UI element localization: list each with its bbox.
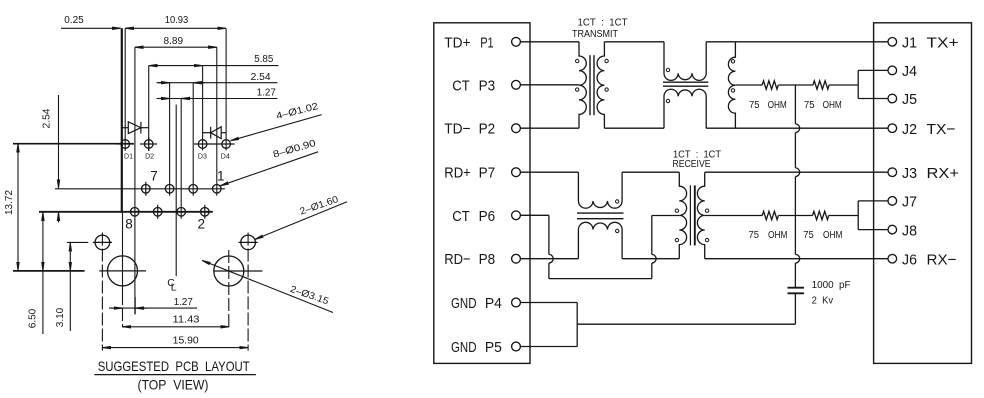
resistor R4 75 OHM xyxy=(813,211,829,219)
ground link vertical xyxy=(576,303,578,347)
svg-text:GND: GND xyxy=(451,339,477,356)
pad row8-3 xyxy=(177,208,186,217)
dimension 5.85 line xyxy=(149,65,203,67)
wire tap to R1 xyxy=(735,84,762,86)
extension line pad row 8 xyxy=(39,211,213,213)
svg-text:P5: P5 xyxy=(485,339,502,356)
svg-text:15.90: 15.90 xyxy=(173,335,200,346)
svg-text:CT: CT xyxy=(452,208,470,225)
dimension 0.25 leader line with arrow xyxy=(61,27,121,29)
svg-text:RD+: RD+ xyxy=(444,165,471,182)
wire P8 to L2 bottom xyxy=(520,258,578,260)
leader 8-dia-0.90 xyxy=(220,152,318,186)
wire hop P6 over P8 xyxy=(549,254,553,263)
dimension 1.27 bottom line xyxy=(109,307,197,309)
choke L2 bottom dot xyxy=(616,229,619,232)
title underline xyxy=(94,374,256,376)
svg-text:3.10: 3.10 xyxy=(55,307,66,327)
wire P2 to T1 primary bottom xyxy=(520,127,579,129)
transformer T2 primary winding xyxy=(679,172,686,259)
dimension 11.43 line xyxy=(123,326,230,328)
transformer T1 primary dots xyxy=(576,59,579,62)
svg-text:D2: D2 xyxy=(145,151,154,160)
pad row8-2 xyxy=(153,208,162,217)
leader 2-dia-3.15 xyxy=(202,260,333,312)
wire T1 to L1 bottom xyxy=(604,127,664,129)
small hole left xyxy=(95,235,110,250)
choke L1 top winding xyxy=(664,42,706,81)
big hole left xyxy=(108,256,138,286)
dimension 1.27 line xyxy=(157,98,278,100)
svg-text:J1: J1 xyxy=(902,35,917,52)
svg-text:J4: J4 xyxy=(902,63,917,80)
svg-text:P2: P2 xyxy=(479,121,496,138)
tx tap winding dots xyxy=(731,60,734,63)
wire L1 to J2 xyxy=(706,127,888,129)
svg-text:P3: P3 xyxy=(479,77,496,94)
svg-text:(TOP VIEW): (TOP VIEW) xyxy=(138,377,209,392)
wire hop over J3 line xyxy=(795,168,799,177)
svg-text:6.50: 6.50 xyxy=(28,308,39,328)
svg-text:75: 75 xyxy=(749,100,760,111)
big hole right xyxy=(214,256,244,286)
wire hop over J2 line xyxy=(795,124,799,133)
capacitor C1 lower lead xyxy=(794,293,796,324)
pad row7-3 xyxy=(189,185,198,194)
pad D3 xyxy=(198,140,207,149)
svg-text:75: 75 xyxy=(749,230,760,241)
svg-text:J7: J7 xyxy=(902,194,917,211)
svg-text:75: 75 xyxy=(803,230,814,241)
leader 4-dia-1.02 xyxy=(231,115,322,141)
svg-text:TD+: TD+ xyxy=(444,34,470,51)
svg-text:0.25: 0.25 xyxy=(64,15,84,26)
svg-text:P1: P1 xyxy=(480,34,494,51)
svg-text:1.27: 1.27 xyxy=(257,87,276,98)
svg-text:2.54: 2.54 xyxy=(251,72,272,83)
extension line D4 column xyxy=(225,28,227,150)
vertical R junction to capacitor xyxy=(794,85,796,124)
svg-text:8: 8 xyxy=(125,217,133,232)
svg-text:TRANSMIT: TRANSMIT xyxy=(572,29,618,40)
bracket J7 J8 xyxy=(857,201,859,230)
svg-text:1: 1 xyxy=(217,169,225,184)
svg-text:2: 2 xyxy=(197,217,205,232)
wire R3 to R4 xyxy=(778,215,812,217)
svg-text:J5: J5 xyxy=(902,91,917,108)
dimension 15.90 line xyxy=(102,347,248,349)
svg-text:P8: P8 xyxy=(479,251,496,268)
svg-text:OHM: OHM xyxy=(823,230,843,241)
svg-text:5.85: 5.85 xyxy=(254,54,273,65)
svg-text:2 Kv: 2 Kv xyxy=(812,296,834,307)
svg-text:GND: GND xyxy=(451,295,477,312)
wire R4 to J7 J8 bracket xyxy=(829,215,859,217)
svg-text:8.89: 8.89 xyxy=(164,36,184,47)
svg-text:2–Ø3.15: 2–Ø3.15 xyxy=(289,284,330,307)
dimension 8.89 line xyxy=(135,46,217,48)
transformer T1 secondary dots xyxy=(605,59,608,62)
pad row7-2 xyxy=(165,185,174,194)
wire P3 to T1 center tap xyxy=(520,84,579,86)
transformer T2 secondary winding xyxy=(697,172,704,259)
extension line diode row xyxy=(13,143,134,145)
choke L2 bottom winding xyxy=(578,222,622,258)
pin J2 terminal xyxy=(888,124,897,133)
extension line pad8-3 column xyxy=(180,99,182,219)
wire P4 to ground link xyxy=(520,302,577,304)
choke L1 top dot xyxy=(666,68,669,71)
svg-text:RX−: RX− xyxy=(927,251,957,268)
wire hop riser over bottom wire xyxy=(652,254,656,263)
svg-text:J2: J2 xyxy=(902,121,917,138)
wire P6 bottom run xyxy=(549,278,652,280)
wire T2 to J3 xyxy=(705,171,888,173)
svg-text:J6: J6 xyxy=(902,251,917,268)
choke L2 core xyxy=(577,212,624,214)
svg-text:J3: J3 xyxy=(902,165,917,182)
svg-text:CT: CT xyxy=(452,77,470,94)
wire L2 to T2 top xyxy=(622,171,679,173)
pad row7-4 pin1 xyxy=(213,185,222,194)
centerline xyxy=(175,105,177,277)
extension line D1 column xyxy=(124,28,126,151)
svg-text:7: 7 xyxy=(150,169,158,184)
svg-text:D3: D3 xyxy=(198,151,207,160)
pin J8 terminal xyxy=(888,225,897,234)
svg-text:4–Ø1.02: 4–Ø1.02 xyxy=(275,101,319,122)
pin J6 terminal xyxy=(888,254,897,263)
svg-text:D4: D4 xyxy=(221,151,230,160)
wire R2 to J4 J5 bracket xyxy=(829,84,858,86)
extension line mounting hole row xyxy=(13,270,85,272)
pin J3 terminal xyxy=(888,168,897,177)
extension line pad1 column xyxy=(216,47,218,196)
transformer T1 secondary winding xyxy=(597,42,604,128)
extension line pad8 column xyxy=(134,47,136,314)
choke L2 top dot xyxy=(616,200,619,203)
dimension 3.10 line xyxy=(69,243,71,271)
diode D3-D4 symbol xyxy=(203,132,211,134)
svg-text:J8: J8 xyxy=(902,222,917,239)
extension line D3 column xyxy=(202,66,204,151)
pad row8-1 xyxy=(130,208,139,217)
bracket J4 J5 xyxy=(857,70,859,98)
leader 2-dia-1.60 xyxy=(255,202,347,240)
svg-text:P4: P4 xyxy=(485,295,502,312)
pin P5 terminal xyxy=(512,342,521,351)
resistor R1 75 OHM xyxy=(762,81,778,89)
wire P5 to ground link xyxy=(520,346,577,348)
svg-text:L: L xyxy=(171,281,177,293)
wire T2 to J6 xyxy=(705,258,888,260)
extension line small hole row dashed xyxy=(67,241,89,243)
wire P6 riser with hop xyxy=(651,263,653,279)
tx tap winding xyxy=(728,42,735,128)
extension line pad row 7 xyxy=(55,188,225,190)
svg-text:11.43: 11.43 xyxy=(173,315,200,326)
svg-text:SUGGESTED PCB LAYOUT: SUGGESTED PCB LAYOUT xyxy=(98,359,250,374)
left drawing: connector edge datum line xyxy=(121,28,123,212)
transformer T2 secondary dots xyxy=(705,209,708,212)
dimension 13.72 line xyxy=(17,144,19,271)
wire L2 to T2 bottom xyxy=(622,258,679,260)
pin P8 terminal xyxy=(512,254,521,263)
wire T1 to L1 top xyxy=(604,41,664,43)
pad row8-4 xyxy=(201,208,210,217)
wire T2 tap to R3 xyxy=(705,215,763,217)
resistor R3 75 OHM xyxy=(762,211,778,219)
svg-text:OHM: OHM xyxy=(768,230,788,241)
svg-text:TD−: TD− xyxy=(444,121,470,138)
wire hop over J6 line xyxy=(795,254,799,263)
wire P1 to T1 primary xyxy=(520,41,579,43)
wire cap to ground link xyxy=(577,323,795,325)
svg-text:1000 pF: 1000 pF xyxy=(812,280,851,291)
svg-text:2–Ø1.60: 2–Ø1.60 xyxy=(298,194,340,218)
wire R1 to R2 xyxy=(778,84,813,86)
pin P2 terminal xyxy=(512,124,521,133)
pin P4 terminal xyxy=(512,298,521,307)
wire L1 to J1 xyxy=(706,41,888,43)
left connector box xyxy=(434,23,530,364)
transformer T1 core xyxy=(589,55,591,115)
extension line pad7-3 column xyxy=(192,83,194,196)
svg-text:D1: D1 xyxy=(124,151,133,160)
right connector box xyxy=(874,23,972,364)
pad row7-1 xyxy=(142,185,151,194)
choke L1 core xyxy=(663,81,708,83)
extension line 1.27 bottom right xyxy=(134,297,136,314)
dimension 2.54 vertical line xyxy=(58,95,60,188)
pin J1 terminal xyxy=(888,38,897,47)
svg-text:10.93: 10.93 xyxy=(165,15,189,26)
pad D1 xyxy=(121,140,130,149)
svg-text:TX−: TX− xyxy=(927,121,956,138)
pad D2 xyxy=(144,140,153,149)
svg-text:1CT : 1CT: 1CT : 1CT xyxy=(578,18,628,29)
svg-text:75: 75 xyxy=(804,100,815,111)
resistor R2 75 OHM xyxy=(813,81,829,89)
dimension 2.54 line xyxy=(157,82,278,84)
pin P7 terminal xyxy=(512,168,521,177)
svg-text:OHM: OHM xyxy=(823,100,842,111)
svg-text:13.72: 13.72 xyxy=(4,190,15,215)
wire riser to T2 center tap xyxy=(652,215,680,217)
svg-text:P7: P7 xyxy=(479,165,496,182)
svg-text:2.54: 2.54 xyxy=(42,108,53,129)
choke L1 bottom dot xyxy=(666,99,669,102)
extension line D2 column xyxy=(148,66,150,151)
pin P3 terminal xyxy=(512,80,521,89)
pin J4 terminal xyxy=(888,66,897,75)
capacitor C1 1000pF xyxy=(788,287,805,289)
choke L2 top winding xyxy=(578,172,622,208)
diode D1-D2 symbol xyxy=(122,127,128,129)
pin J5 terminal xyxy=(888,94,897,103)
pin P1 terminal xyxy=(512,37,521,46)
svg-text:OHM: OHM xyxy=(768,100,787,111)
wire P6 horizontal xyxy=(520,214,549,216)
dimension 6.50 line xyxy=(42,212,44,270)
dimension 10.93 line xyxy=(125,27,226,29)
svg-text:8–Ø0.90: 8–Ø0.90 xyxy=(272,138,318,161)
svg-text:RD−: RD− xyxy=(444,251,470,268)
extension line pad7-2 column xyxy=(169,83,171,196)
choke L1 bottom winding xyxy=(664,89,706,128)
pin P6 terminal xyxy=(512,211,521,220)
pin J7 terminal xyxy=(888,197,897,206)
transformer T1 primary winding xyxy=(579,42,586,128)
svg-text:P6: P6 xyxy=(479,208,496,225)
small hole right xyxy=(241,235,256,250)
wire P6 vertical with hop xyxy=(548,215,550,254)
transformer T2 primary dots xyxy=(675,209,678,212)
svg-text:RX+: RX+ xyxy=(927,165,960,182)
wire P7 to L2 xyxy=(520,171,578,173)
svg-text:TX+: TX+ xyxy=(927,35,959,52)
svg-text:1.27: 1.27 xyxy=(174,297,193,308)
transformer T2 core xyxy=(689,185,691,245)
svg-text:RECEIVE: RECEIVE xyxy=(673,159,711,170)
pad D4 xyxy=(222,140,231,149)
